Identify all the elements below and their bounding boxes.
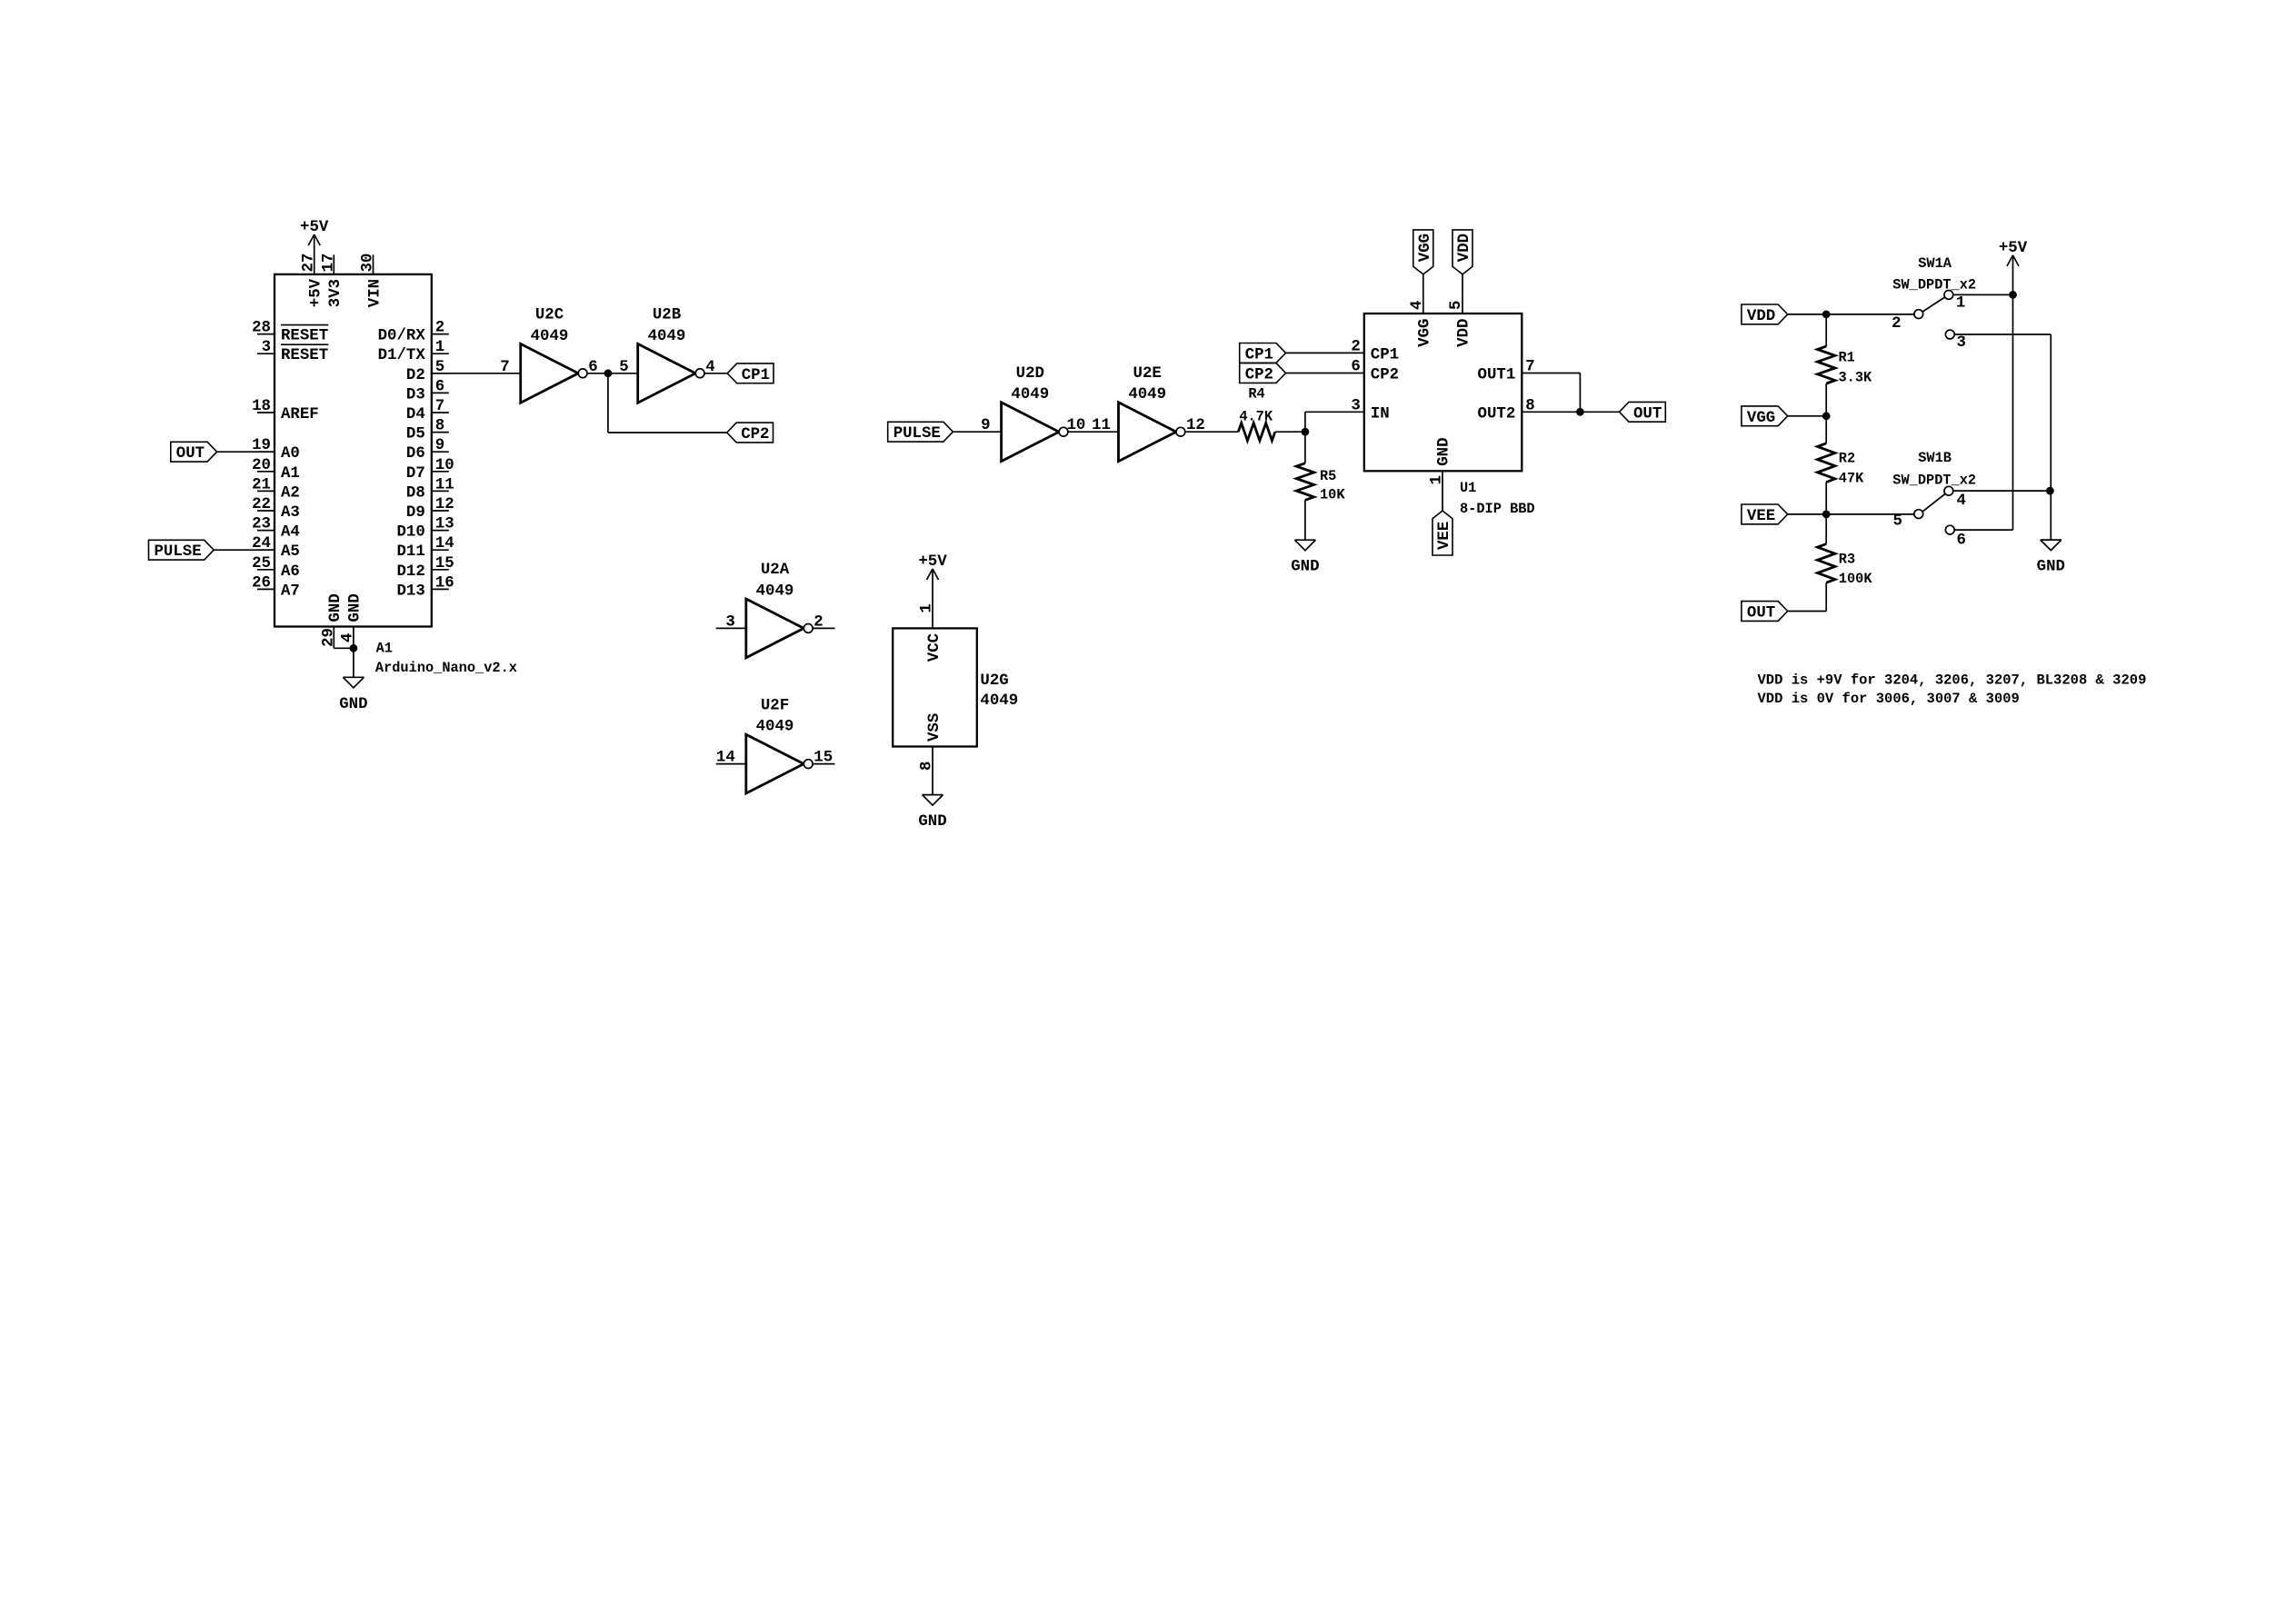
- Arduino Nano A1 body: [275, 274, 432, 627]
- svg-text:2: 2: [435, 320, 444, 337]
- svg-text:16: 16: [435, 574, 454, 592]
- wire R4 to junction: [1275, 431, 1305, 433]
- svg-text:9: 9: [435, 437, 444, 454]
- A1 pin 4 GND: [353, 627, 354, 649]
- inverter U2E: [1119, 403, 1177, 462]
- wire OUT2 to OUT: [1522, 411, 1619, 413]
- svg-text:14: 14: [716, 750, 735, 767]
- svg-text:GND: GND: [2037, 559, 2065, 576]
- wire VEE down to R3: [1825, 514, 1827, 544]
- svg-text:D13: D13: [396, 582, 424, 600]
- svg-text:U2A: U2A: [761, 562, 790, 579]
- wire R5 to GND: [1304, 500, 1306, 540]
- wire VGG pin up: [1423, 274, 1424, 294]
- switch SW1B pin 4 contact: [1944, 486, 1953, 495]
- svg-text:4: 4: [1957, 493, 1966, 510]
- wire SW1A pin1 to +5V: [1953, 294, 2013, 295]
- junction pin4/pin3 node: [2046, 487, 2054, 495]
- svg-text:OUT1: OUT1: [1478, 367, 1516, 384]
- A1 pin 28 RESET: [257, 334, 275, 335]
- resistor R4: [1238, 423, 1275, 441]
- wire R1 to VGG: [1825, 383, 1827, 416]
- svg-text:3: 3: [1351, 397, 1360, 414]
- A1 pin 17 3V3: [333, 254, 334, 274]
- svg-text:U2B: U2B: [653, 307, 682, 324]
- svg-text:30: 30: [360, 254, 377, 273]
- svg-text:R2: R2: [1839, 451, 1855, 467]
- svg-text:U2E: U2E: [1133, 365, 1162, 383]
- svg-text:VDD is 0V for 3006, 3007 & 300: VDD is 0V for 3006, 3007 & 3009: [1758, 691, 2020, 707]
- junction VEE/R3: [1822, 511, 1831, 519]
- wire PULSE to A5: [214, 549, 275, 551]
- svg-text:GND: GND: [327, 593, 344, 622]
- svg-text:CP1: CP1: [1371, 346, 1399, 363]
- svg-text:4049: 4049: [1128, 386, 1166, 403]
- wire junction down to GND: [2050, 491, 2051, 540]
- svg-text:100K: 100K: [1839, 571, 1873, 587]
- wire to GND symbol: [353, 648, 354, 677]
- net flag VDD (U1): [1452, 230, 1472, 274]
- A1 pin 30 VIN: [373, 254, 374, 274]
- U2F output wire: [813, 763, 834, 765]
- svg-text:A5: A5: [281, 543, 300, 561]
- A1 pin 18 AREF: [257, 412, 275, 413]
- svg-text:6: 6: [1351, 359, 1360, 376]
- net flag OUT (U1): [1620, 402, 1666, 422]
- net flag VEE (divider): [1742, 504, 1788, 524]
- svg-text:VGG: VGG: [1417, 234, 1434, 262]
- resistor R2: [1818, 443, 1835, 483]
- svg-text:VGG: VGG: [1417, 319, 1434, 347]
- svg-text:23: 23: [252, 516, 271, 533]
- svg-text:8: 8: [435, 418, 444, 435]
- wire junction down to CP2: [607, 373, 609, 433]
- svg-text:R4: R4: [1248, 385, 1264, 402]
- svg-text:6: 6: [435, 378, 444, 395]
- svg-text:U2F: U2F: [761, 697, 789, 714]
- svg-text:9: 9: [981, 417, 990, 434]
- svg-text:OUT: OUT: [176, 445, 205, 463]
- svg-text:26: 26: [252, 574, 271, 592]
- A1 pin 1 D1/TX: [432, 353, 449, 354]
- ground GND (U2G): [923, 794, 943, 796]
- A1 pin 11 D8: [432, 490, 449, 492]
- svg-text:4: 4: [1409, 301, 1426, 310]
- A1 pin 16 D13: [432, 588, 449, 590]
- svg-text:D9: D9: [406, 504, 425, 522]
- svg-text:4: 4: [340, 633, 357, 642]
- svg-text:+5V: +5V: [918, 553, 947, 571]
- A1 pin 12 D9: [432, 510, 449, 512]
- svg-text:2: 2: [1892, 315, 1901, 333]
- power +5V (Arduino): [308, 234, 314, 245]
- svg-text:3: 3: [725, 613, 734, 631]
- net flag CP2 (U1): [1240, 363, 1286, 383]
- net flag VGG (divider): [1742, 406, 1788, 426]
- A1 pin 20 A1: [257, 471, 275, 473]
- net flag VEE (U1): [1433, 511, 1452, 555]
- A1 pin 29 GND: [333, 627, 334, 649]
- net flag VGG (U1): [1413, 230, 1433, 274]
- A1 pin 2 D0/RX: [432, 334, 449, 335]
- svg-text:8-DIP BBD: 8-DIP BBD: [1460, 501, 1535, 517]
- net flag PULSE (A5): [149, 540, 215, 560]
- A1 pin 7 D4: [432, 412, 449, 413]
- inverter U2C: [521, 344, 579, 403]
- ground GND (R5): [1294, 539, 1315, 541]
- switch SW1A lever: [1922, 297, 1945, 312]
- A1 pin 10 D7: [432, 471, 449, 473]
- svg-text:U2D: U2D: [1016, 365, 1044, 383]
- wire VDD down to R1: [1825, 314, 1827, 346]
- switch SW1B pin 6 contact: [1945, 525, 1954, 534]
- wire +5V symbol: [2012, 255, 2014, 295]
- svg-text:+5V: +5V: [300, 219, 329, 236]
- resistor R3: [1818, 544, 1835, 583]
- A1 pin 21 A2: [257, 490, 275, 492]
- svg-text:GND: GND: [1436, 437, 1453, 465]
- net flag CP1 (U1): [1240, 344, 1286, 363]
- U1 pin 4 VGG: [1423, 294, 1424, 314]
- svg-text:3V3: 3V3: [327, 279, 344, 307]
- inverter U2D: [1002, 403, 1060, 462]
- wire CP1 to U1: [1286, 352, 1364, 353]
- svg-text:11: 11: [435, 476, 454, 493]
- svg-text:A2: A2: [281, 484, 300, 502]
- svg-text:A0: A0: [281, 445, 300, 463]
- svg-text:D6: D6: [406, 445, 425, 463]
- svg-text:SW1B: SW1B: [1918, 450, 1952, 466]
- U2G body: [893, 628, 977, 746]
- net flag CP2 (below CP1): [727, 423, 774, 443]
- wire pin29 to pin4 bottom: [334, 647, 354, 649]
- wire PULSE to U2D: [953, 431, 1001, 433]
- wire VDD to switch: [1788, 314, 1914, 315]
- svg-text:CP1: CP1: [1245, 346, 1273, 363]
- U2F input wire: [716, 763, 746, 765]
- wire R2 to VEE: [1825, 483, 1827, 514]
- svg-text:D1/TX: D1/TX: [378, 347, 426, 364]
- svg-text:+5V: +5V: [1999, 240, 2028, 257]
- svg-text:1: 1: [918, 603, 935, 612]
- net flag PULSE (U2D): [888, 422, 953, 442]
- A1 pin 24 A5: [257, 549, 275, 551]
- wire CP2 to U1: [1286, 373, 1364, 374]
- inverter U2B: [638, 344, 696, 403]
- junction R4/R5/IN: [1302, 428, 1310, 436]
- net flag OUT (divider): [1742, 602, 1788, 622]
- A1 pin 25 A6: [257, 569, 275, 571]
- svg-text:D8: D8: [406, 484, 425, 502]
- svg-text:14: 14: [435, 535, 454, 553]
- svg-text:Arduino_Nano_v2.x: Arduino_Nano_v2.x: [375, 660, 517, 676]
- U2G pin 1 VCC: [932, 569, 933, 628]
- svg-text:GND: GND: [347, 593, 364, 622]
- A1 pin 15 D12: [432, 569, 449, 571]
- svg-text:VSS: VSS: [926, 713, 943, 742]
- svg-text:28: 28: [252, 320, 271, 337]
- junction VDD/R1: [1822, 311, 1831, 319]
- svg-text:4.7K: 4.7K: [1239, 408, 1273, 424]
- svg-text:VEE: VEE: [1747, 508, 1775, 525]
- svg-text:D4: D4: [406, 406, 425, 423]
- power +5V (U2G): [927, 569, 933, 580]
- svg-text:GND: GND: [339, 696, 367, 713]
- svg-text:A6: A6: [281, 563, 300, 581]
- svg-text:A3: A3: [281, 504, 300, 522]
- U1 body: [1364, 314, 1522, 471]
- junction CP1 node: [604, 369, 613, 377]
- svg-text:SW_DPDT_x2: SW_DPDT_x2: [1892, 472, 1976, 488]
- power +5V (rail): [2007, 255, 2013, 266]
- svg-text:15: 15: [435, 555, 454, 573]
- junction OUT node: [1576, 408, 1584, 416]
- switch SW1A pin 2 contact: [1914, 310, 1923, 319]
- resistor R5: [1296, 463, 1313, 501]
- svg-text:10: 10: [435, 457, 454, 474]
- switch SW1B lever: [1922, 493, 1945, 512]
- wire U2D out to U2E: [1068, 431, 1119, 433]
- svg-text:47K: 47K: [1839, 471, 1864, 487]
- svg-text:D10: D10: [396, 524, 424, 542]
- svg-text:CP2: CP2: [1371, 367, 1399, 384]
- svg-text:A1: A1: [376, 641, 393, 657]
- inverter U2A: [746, 599, 804, 658]
- svg-text:21: 21: [252, 476, 271, 493]
- wire U2B out to CP1: [704, 373, 727, 374]
- svg-text:D2: D2: [406, 367, 425, 384]
- wire junction up to IN row: [1304, 412, 1306, 432]
- net flag OUT (A0): [171, 442, 217, 462]
- A1 pin 8 D5: [432, 432, 449, 433]
- A1 pin 6 D3: [432, 392, 449, 393]
- wire pin27 to +5V: [314, 234, 315, 274]
- wire OUT to A0: [217, 451, 275, 453]
- svg-text:A1: A1: [281, 465, 300, 483]
- svg-text:22: 22: [252, 496, 271, 513]
- svg-text:D3: D3: [406, 386, 425, 403]
- svg-text:1: 1: [1956, 295, 1965, 313]
- wire junction down to R5: [1304, 432, 1306, 463]
- svg-text:1: 1: [1429, 475, 1446, 484]
- svg-text:IN: IN: [1371, 405, 1390, 423]
- A1 pin 23 A4: [257, 530, 275, 532]
- svg-text:RESET: RESET: [281, 347, 328, 364]
- ground GND (Arduino): [343, 676, 364, 678]
- A1 pin 5 D2: [432, 373, 449, 374]
- wire +5V rail down: [2012, 294, 2014, 530]
- resistor R1: [1818, 346, 1835, 383]
- svg-text:OUT2: OUT2: [1478, 405, 1516, 423]
- svg-text:D5: D5: [406, 426, 425, 443]
- junction +5V rail: [2009, 291, 2017, 299]
- wire VEE to switch: [1788, 513, 1914, 515]
- wire SW1B pin6 to rail: [1954, 529, 2012, 531]
- A1 pin 3 RESET: [257, 353, 275, 354]
- svg-text:8: 8: [918, 762, 935, 771]
- A1 pin 19 A0: [257, 451, 275, 453]
- svg-text:25: 25: [252, 555, 271, 573]
- svg-text:VEE: VEE: [1436, 522, 1453, 550]
- svg-text:12: 12: [435, 496, 454, 513]
- svg-text:D7: D7: [406, 465, 425, 483]
- svg-text:VDD: VDD: [1456, 234, 1473, 262]
- A1 pin 14 D11: [432, 549, 449, 551]
- svg-text:20: 20: [252, 457, 271, 474]
- svg-text:VGG: VGG: [1747, 410, 1775, 427]
- svg-text:U2G: U2G: [980, 672, 1008, 690]
- wire R3 to OUT corner: [1825, 582, 1827, 611]
- svg-text:4049: 4049: [648, 328, 686, 345]
- svg-text:CP1: CP1: [742, 367, 770, 384]
- svg-text:OUT: OUT: [1747, 605, 1775, 622]
- U1 pin 5 VDD: [1462, 294, 1463, 314]
- net flag VDD (divider): [1742, 304, 1788, 324]
- svg-text:5: 5: [1892, 513, 1902, 531]
- svg-text:PULSE: PULSE: [893, 425, 941, 443]
- svg-text:6: 6: [1957, 533, 1966, 550]
- switch SW1A pin 1 contact: [1944, 291, 1953, 300]
- wire U2C out to junction: [587, 373, 638, 374]
- svg-text:4049: 4049: [980, 692, 1018, 710]
- wire VGG to junction: [1788, 415, 1827, 417]
- U2G pin 8 VSS: [932, 747, 933, 795]
- U2A input wire: [716, 627, 746, 629]
- svg-text:VCC: VCC: [926, 633, 943, 662]
- svg-text:VDD: VDD: [1747, 308, 1775, 325]
- wire VDD pin up: [1462, 274, 1463, 294]
- A1 pin 9 D6: [432, 451, 449, 453]
- svg-text:4049: 4049: [531, 328, 569, 345]
- U1 pin 1 GND: [1442, 471, 1443, 511]
- svg-text:4049: 4049: [1011, 386, 1049, 403]
- svg-text:CP2: CP2: [1245, 367, 1273, 384]
- svg-text:D12: D12: [396, 563, 424, 581]
- wire SW1A pin3 right: [1954, 334, 2051, 335]
- svg-text:GND: GND: [918, 813, 946, 831]
- svg-text:VIN: VIN: [366, 279, 384, 307]
- svg-text:11: 11: [1092, 417, 1111, 434]
- A1 pin 13 D10: [432, 530, 449, 532]
- svg-text:17: 17: [320, 254, 337, 273]
- wire D2 to U2C: [432, 373, 521, 374]
- wire SW1B pin4 right: [1953, 490, 2051, 492]
- svg-text:GND: GND: [1291, 559, 1319, 576]
- wire VGG down to R2: [1825, 416, 1827, 443]
- junction at GND pins: [350, 644, 358, 652]
- wire OUT1 jog: [1522, 373, 1580, 374]
- wire U2E out to R4: [1185, 431, 1238, 433]
- svg-text:VDD: VDD: [1456, 319, 1473, 347]
- svg-text:A4: A4: [281, 524, 300, 542]
- svg-text:5: 5: [619, 359, 628, 376]
- svg-text:+5V: +5V: [308, 278, 325, 307]
- svg-text:29: 29: [321, 628, 338, 647]
- svg-text:5: 5: [1448, 301, 1465, 310]
- switch SW1A pin 3 contact: [1945, 330, 1954, 339]
- svg-text:A7: A7: [281, 582, 300, 600]
- svg-text:RESET: RESET: [281, 328, 328, 345]
- U2A output wire: [813, 627, 834, 629]
- svg-text:OUT: OUT: [1633, 405, 1662, 423]
- A1 pin 22 A3: [257, 510, 275, 512]
- svg-text:SW_DPDT_x2: SW_DPDT_x2: [1892, 277, 1976, 294]
- svg-text:D11: D11: [396, 543, 424, 561]
- svg-text:AREF: AREF: [281, 406, 319, 423]
- svg-text:VDD is +9V for 3204, 3206, 320: VDD is +9V for 3204, 3206, 3207, BL3208 …: [1758, 672, 2147, 689]
- svg-text:7: 7: [435, 398, 444, 415]
- svg-text:3.3K: 3.3K: [1839, 369, 1873, 385]
- svg-text:18: 18: [252, 398, 271, 415]
- svg-text:2: 2: [1351, 338, 1360, 355]
- ground GND (switch): [2041, 539, 2061, 541]
- svg-text:U1: U1: [1460, 480, 1476, 496]
- svg-text:7: 7: [500, 359, 509, 376]
- svg-text:PULSE: PULSE: [155, 543, 202, 561]
- svg-text:3: 3: [262, 339, 271, 356]
- inverter U2F: [746, 734, 804, 793]
- A1 pin 26 A7: [257, 588, 275, 590]
- svg-text:1: 1: [435, 339, 444, 356]
- svg-text:U2C: U2C: [535, 307, 564, 324]
- svg-text:13: 13: [435, 516, 454, 533]
- switch SW1B pin 5 contact: [1914, 510, 1923, 519]
- svg-text:3: 3: [1957, 334, 1966, 352]
- svg-text:27: 27: [301, 254, 318, 273]
- wire pin3 down: [2050, 334, 2051, 491]
- net flag CP1 (right of U2B): [727, 363, 774, 383]
- svg-text:CP2: CP2: [741, 426, 769, 443]
- svg-text:R1: R1: [1839, 350, 1855, 366]
- svg-text:R3: R3: [1839, 551, 1855, 567]
- svg-text:4049: 4049: [756, 719, 794, 736]
- svg-text:D0/RX: D0/RX: [378, 328, 426, 345]
- svg-text:R5: R5: [1320, 468, 1336, 484]
- svg-text:SW1A: SW1A: [1918, 255, 1952, 272]
- svg-text:4049: 4049: [756, 582, 794, 600]
- svg-text:10K: 10K: [1320, 487, 1345, 503]
- wire to U1 IN: [1305, 411, 1364, 413]
- junction VGG/R2: [1822, 412, 1831, 420]
